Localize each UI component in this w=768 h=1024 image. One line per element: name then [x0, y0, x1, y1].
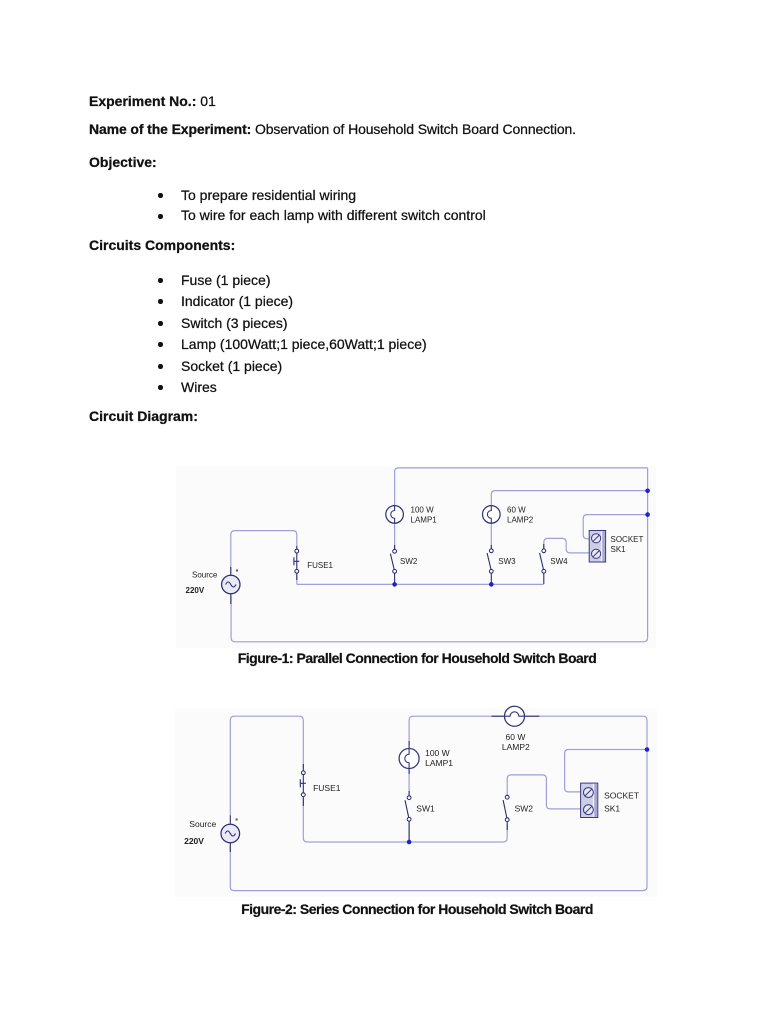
svg-text:SW2: SW2 — [400, 557, 418, 566]
svg-text:LAMP2: LAMP2 — [502, 742, 530, 752]
svg-text:SK1: SK1 — [604, 803, 620, 813]
svg-text:SW4: SW4 — [550, 557, 568, 566]
svg-text:220V: 220V — [184, 836, 204, 846]
svg-text:SK1: SK1 — [611, 545, 627, 554]
svg-text:LAMP1: LAMP1 — [411, 515, 438, 524]
svg-text:100 W: 100 W — [411, 506, 435, 515]
svg-text:220V: 220V — [186, 586, 205, 595]
svg-text:60 W: 60 W — [507, 506, 526, 515]
svg-text:SW1: SW1 — [416, 803, 435, 813]
svg-text:LAMP2: LAMP2 — [507, 515, 534, 524]
svg-text:SW3: SW3 — [498, 557, 516, 566]
svg-text:LAMP1: LAMP1 — [425, 758, 453, 768]
svg-text:100 W: 100 W — [425, 748, 450, 758]
svg-text:60 W: 60 W — [506, 732, 526, 742]
svg-text:SW2: SW2 — [515, 803, 534, 813]
svg-text:SOCKET: SOCKET — [604, 791, 639, 801]
svg-text:FUSE1: FUSE1 — [313, 783, 341, 793]
svg-text:SOCKET: SOCKET — [611, 535, 644, 544]
svg-text:Source: Source — [192, 571, 218, 580]
svg-text:Source: Source — [189, 819, 216, 829]
svg-text:FUSE1: FUSE1 — [307, 561, 333, 570]
